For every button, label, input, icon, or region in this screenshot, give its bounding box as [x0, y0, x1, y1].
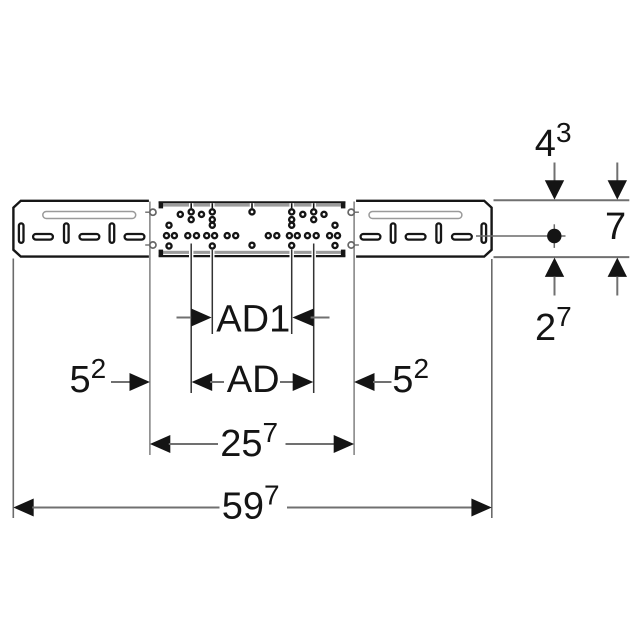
dimension 5.2 right	[354, 353, 429, 401]
center section hole grid: middle row	[164, 233, 340, 238]
leader line from AD1 left column	[211, 250, 213, 334]
dimension 5.2 left	[70, 353, 150, 401]
fixing point line through right slots	[476, 235, 566, 237]
dimension AD1	[177, 299, 330, 341]
svg-text:AD1: AD1	[216, 299, 290, 341]
dimension 4.3: arrows down	[535, 117, 627, 199]
right section vertical slots	[391, 223, 486, 243]
fixing point dot	[547, 229, 561, 243]
center section top edge line	[159, 201, 346, 203]
section boundary line left (extension line for 25.7)	[149, 202, 151, 456]
leader line from AD1 right column	[291, 249, 293, 334]
top edge extension line (right)	[494, 199, 630, 201]
center section bottom edge line	[159, 255, 346, 257]
center section hole grid: top offset row	[178, 212, 327, 217]
left section horizontal slots	[33, 234, 144, 240]
center section top gray band	[163, 203, 341, 206]
extension line 59.7 right	[491, 259, 493, 518]
center section hole grid: bottom row	[166, 243, 337, 249]
center section corner tabs	[159, 202, 346, 257]
left section vertical slots	[19, 223, 114, 243]
bottom edge extension line (right)	[494, 256, 630, 258]
center section hole grid: third row	[166, 223, 337, 228]
svg-text:AD: AD	[227, 359, 280, 401]
right section long top slot	[369, 212, 462, 219]
fixing point vertical tick	[553, 224, 555, 248]
top tick marks to ticked holes	[191, 203, 314, 208]
dimension 2.7: arrows up	[535, 258, 627, 349]
left section long top slot	[43, 212, 136, 219]
right section horizontal slots	[361, 234, 472, 240]
boundary fixing circles left	[150, 209, 156, 248]
center section hole grid: second row	[189, 217, 317, 222]
dimension 25.7	[150, 417, 354, 465]
right plate section outline	[356, 201, 492, 257]
extension line 59.7 left	[12, 259, 14, 519]
section boundary line right (extension line for 25.7)	[353, 202, 355, 456]
dimension 59.7	[13, 480, 492, 528]
boundary fixing circles right	[348, 209, 354, 248]
svg-text:7: 7	[605, 206, 626, 248]
boundary circle ticks right	[354, 212, 359, 245]
center section hole grid: top ticked row	[189, 209, 317, 214]
dimension AD	[192, 359, 314, 401]
center section bottom gray band	[163, 251, 341, 254]
left plate section outline	[13, 201, 149, 257]
white gaps in bands at tick/leader positions	[189, 203, 316, 258]
leader line from AD left column	[190, 244, 192, 394]
leader line from AD right column	[313, 244, 315, 394]
boundary circle ticks left	[145, 212, 150, 245]
